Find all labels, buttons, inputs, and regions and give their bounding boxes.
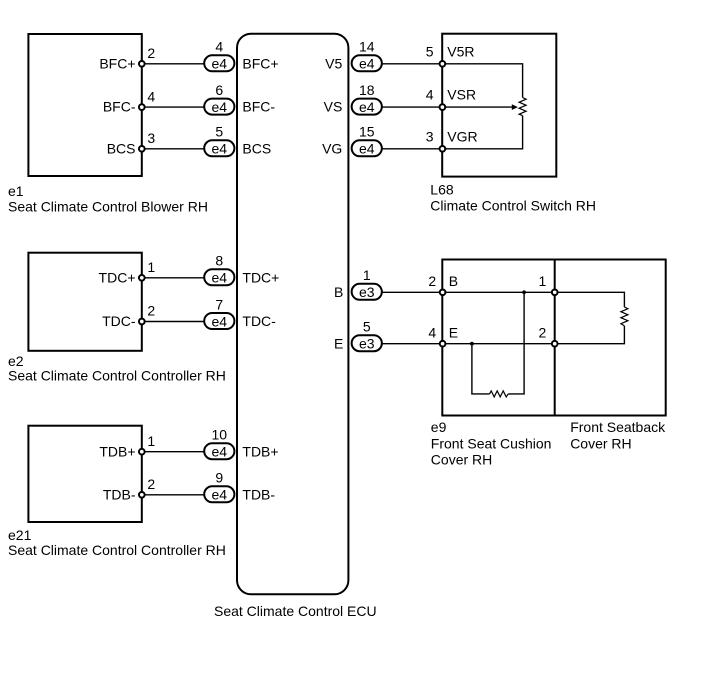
svg-text:BFC+: BFC+ (99, 55, 135, 71)
connector oval e4 pin 9 (TDB-) (204, 470, 234, 503)
svg-text:18: 18 (359, 82, 375, 98)
svg-text:Seat Climate Control ECU: Seat Climate Control ECU (214, 603, 377, 619)
label L68 caption (430, 182, 596, 214)
svg-text:e4: e4 (212, 487, 228, 503)
svg-text:BFC+: BFC+ (242, 55, 278, 71)
svg-text:5: 5 (363, 319, 371, 335)
potentiometer wiper arrow (512, 104, 518, 110)
svg-text:TDB+: TDB+ (242, 443, 278, 459)
svg-text:8: 8 (215, 253, 223, 269)
pin circle e2 TDC+ (139, 275, 145, 281)
connector oval e4 pin 5 (BCS) (204, 124, 234, 157)
svg-text:e3: e3 (359, 284, 375, 300)
pin circle L68 V5R (440, 61, 446, 67)
svg-text:e21: e21 (8, 527, 32, 543)
label Front Seatback caption (570, 419, 666, 452)
svg-text:5: 5 (426, 43, 434, 59)
label e21 caption (8, 527, 226, 558)
resistor (seatback heater element) (621, 307, 628, 326)
svg-text:TDC+: TDC+ (242, 269, 279, 285)
pin circle L68 VSR (440, 104, 446, 110)
svg-text:1: 1 (539, 273, 547, 289)
svg-text:5: 5 (215, 124, 223, 140)
connector oval e4 pin 15 (VG) (352, 124, 382, 157)
connector oval e4 pin 7 (TDC-) (204, 296, 234, 329)
connector L68 box (Climate Control Switch RH) (442, 34, 556, 177)
wire V5R to potentiometer top (442, 64, 522, 98)
svg-text:Cover RH: Cover RH (570, 436, 631, 452)
wire VS ECU to L68 (380, 106, 442, 108)
wire VG ECU to L68 (380, 148, 442, 150)
svg-text:7: 7 (215, 296, 223, 312)
svg-text:e4: e4 (212, 99, 228, 115)
wire cushion loop from E junction (472, 344, 490, 394)
svg-text:L68: L68 (430, 182, 454, 198)
wire VGR to potentiometer bottom (442, 116, 522, 149)
wire TDC+ e2 to ECU (142, 277, 205, 279)
junction dot on B wire (522, 290, 526, 294)
svg-text:1: 1 (363, 267, 371, 283)
svg-text:e1: e1 (8, 183, 24, 199)
svg-text:e4: e4 (212, 444, 228, 460)
pin circle divider 2 (552, 341, 558, 347)
junction dot on E wire (470, 342, 474, 346)
svg-text:BCS: BCS (107, 140, 136, 156)
svg-text:BCS: BCS (242, 140, 271, 156)
svg-text:Front Seatback: Front Seatback (570, 419, 666, 435)
connector e1 box (Seat Climate Control Blower RH) (28, 34, 141, 176)
svg-text:e4: e4 (212, 56, 228, 72)
label e2 caption (8, 353, 226, 384)
svg-text:B: B (334, 284, 343, 300)
svg-text:e4: e4 (212, 141, 228, 157)
svg-text:e3: e3 (359, 336, 375, 352)
svg-text:TDC-: TDC- (242, 313, 276, 329)
svg-text:4: 4 (215, 39, 223, 55)
wire B seatback to resistor (555, 292, 625, 307)
wire TDB- e21 to ECU (142, 494, 205, 496)
divider between seat cushion and seatback sections (554, 260, 556, 416)
pin circle divider 1 (552, 289, 558, 295)
svg-text:Cover RH: Cover RH (431, 452, 492, 468)
svg-text:1: 1 (147, 259, 155, 275)
svg-text:e4: e4 (212, 270, 228, 286)
svg-text:TDC+: TDC+ (99, 269, 136, 285)
ECU box (Seat Climate Control ECU) (237, 34, 348, 595)
svg-text:E: E (449, 324, 458, 340)
svg-text:15: 15 (359, 124, 375, 140)
wire B inside cushion (442, 291, 554, 293)
wire BFC- e1 to ECU (142, 106, 205, 108)
pin circle e21 TDB- (139, 492, 145, 498)
svg-text:e4: e4 (212, 313, 228, 329)
pin circle e2 TDC- (139, 319, 145, 325)
svg-text:3: 3 (426, 128, 434, 144)
svg-text:e4: e4 (359, 141, 375, 157)
svg-text:TDB-: TDB- (242, 486, 275, 502)
svg-text:V5: V5 (325, 55, 342, 71)
svg-text:10: 10 (212, 427, 228, 443)
svg-text:6: 6 (215, 82, 223, 98)
connector oval e4 pin 18 (VS) (352, 82, 382, 115)
wire V5 ECU to L68 (380, 63, 442, 65)
connector e2 box (Seat Climate Control Controller RH) (28, 253, 141, 351)
svg-text:E: E (334, 335, 343, 351)
svg-text:VGR: VGR (447, 128, 477, 144)
svg-text:4: 4 (426, 87, 434, 103)
svg-text:e9: e9 (431, 419, 447, 435)
svg-text:4: 4 (428, 324, 436, 340)
pin circle e21 TDB+ (139, 449, 145, 455)
svg-text:2: 2 (147, 303, 155, 319)
svg-text:3: 3 (147, 130, 155, 146)
svg-text:9: 9 (215, 470, 223, 486)
connector oval e4 pin 14 (V5) (352, 39, 382, 72)
wire TDB+ e21 to ECU (142, 451, 205, 453)
resistor (L68 potentiometer element) (519, 98, 526, 116)
label e9 caption (431, 419, 552, 468)
svg-text:BFC-: BFC- (242, 99, 275, 115)
wire BFC+ e1 to ECU (142, 63, 205, 65)
svg-text:Climate Control Switch RH: Climate Control Switch RH (430, 198, 596, 214)
wire BCS e1 to ECU (142, 148, 205, 150)
svg-text:VSR: VSR (447, 87, 476, 103)
svg-text:Seat Climate Control Blower RH: Seat Climate Control Blower RH (8, 199, 208, 215)
wire E inside cushion (442, 343, 554, 345)
svg-text:VS: VS (324, 99, 343, 115)
svg-text:V5R: V5R (447, 43, 474, 59)
pin circle e1 BFC- (139, 104, 145, 110)
label e1 caption (8, 183, 208, 215)
wire E seatback from resistor (555, 326, 625, 344)
wire cushion loop from B junction (508, 292, 524, 394)
svg-text:4: 4 (147, 88, 155, 104)
svg-text:TDB-: TDB- (103, 486, 136, 502)
svg-text:2: 2 (147, 45, 155, 61)
pin circle e1 BFC+ (139, 61, 145, 67)
resistor (seat cushion heater element) (490, 391, 509, 397)
svg-text:Seat Climate Control Controlle: Seat Climate Control Controller RH (8, 368, 226, 384)
connector oval e4 pin 8 (TDC+) (204, 253, 234, 286)
pin circle e9 B (440, 289, 446, 295)
svg-text:TDC-: TDC- (102, 313, 136, 329)
connector e9 box (Front Seat Cushion Cover RH / Front Seatback Cover RH) (442, 260, 665, 416)
svg-text:Front Seat Cushion: Front Seat Cushion (431, 436, 552, 452)
connector e21 box (Seat Climate Control Controller RH) (28, 426, 141, 522)
svg-text:1: 1 (147, 433, 155, 449)
wire VSR wiper line (442, 106, 512, 108)
connector oval e4 pin 6 (BFC-) (204, 82, 234, 115)
svg-text:BFC-: BFC- (103, 99, 136, 115)
connector oval e3 pin 5 (E) (352, 319, 382, 352)
svg-text:2: 2 (147, 476, 155, 492)
wire B ECU to e9 (380, 291, 442, 293)
pin circle e9 E (440, 341, 446, 347)
svg-text:Seat Climate Control Controlle: Seat Climate Control Controller RH (8, 542, 226, 558)
svg-text:e4: e4 (359, 99, 375, 115)
pin circle L68 VGR (440, 146, 446, 152)
wire E ECU to e9 (380, 343, 442, 345)
connector oval e4 pin 10 (TDB+) (204, 427, 234, 460)
svg-text:VG: VG (322, 140, 342, 156)
svg-text:14: 14 (359, 39, 375, 55)
svg-text:e4: e4 (359, 56, 375, 72)
connector oval e4 pin 4 (BFC+) (204, 39, 234, 72)
connector oval e3 pin 1 (B) (352, 267, 382, 300)
pin circle e1 BCS (139, 146, 145, 152)
svg-text:TDB+: TDB+ (99, 443, 135, 459)
svg-text:2: 2 (539, 324, 547, 340)
svg-text:B: B (449, 273, 458, 289)
svg-text:2: 2 (428, 273, 436, 289)
wire TDC- e2 to ECU (142, 321, 205, 323)
